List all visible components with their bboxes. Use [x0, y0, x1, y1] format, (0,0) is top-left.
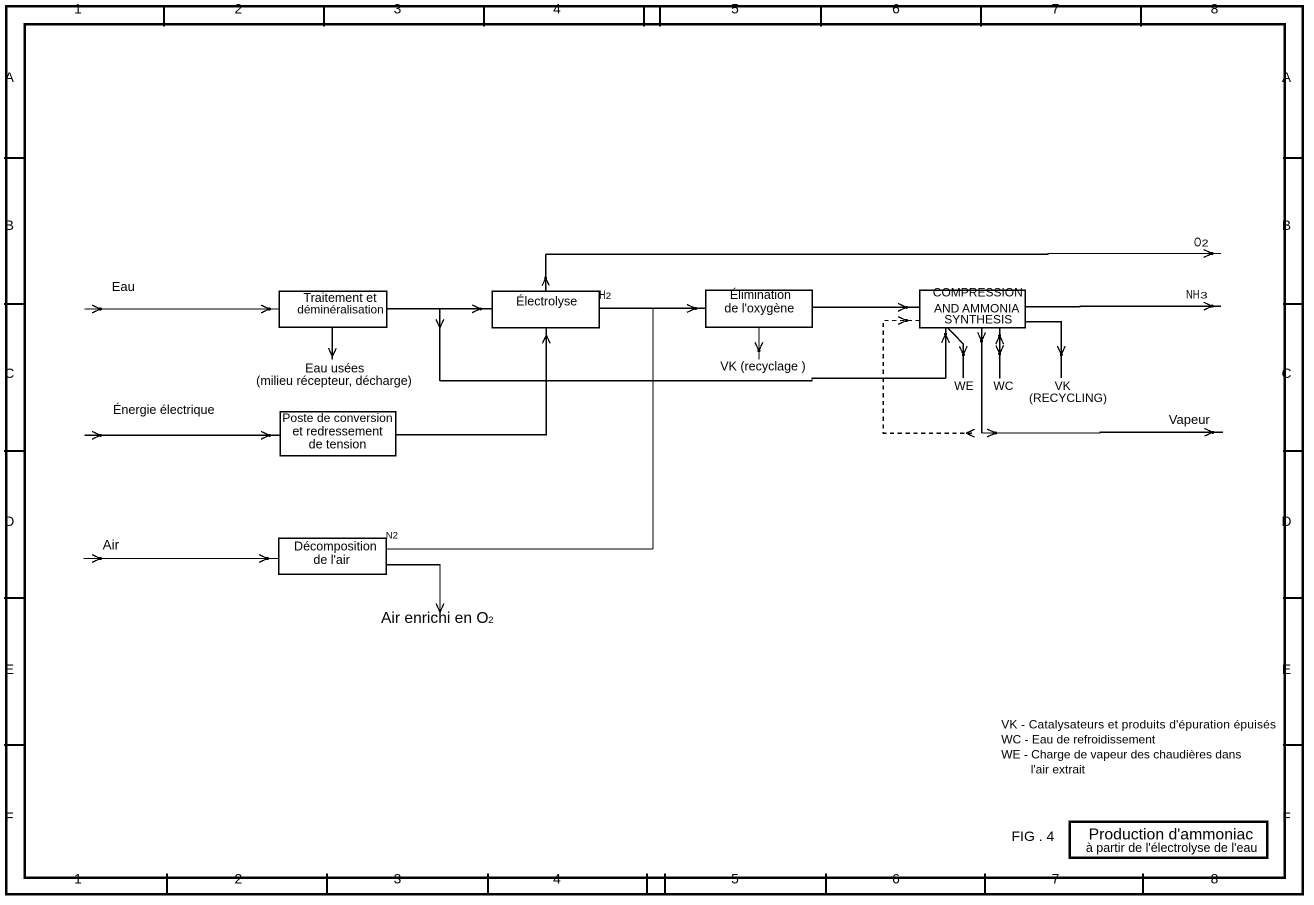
wire: B4 WE outlet diagonal	[948, 328, 964, 379]
svg-text:H: H	[599, 290, 605, 302]
svg-text:7: 7	[1052, 872, 1060, 887]
svg-text:F: F	[5, 810, 13, 825]
svg-text:de l'air: de l'air	[313, 553, 349, 567]
svg-text:WC: WC	[993, 379, 1013, 393]
svg-text:Air enrichi en O: Air enrichi en O	[381, 610, 488, 627]
svg-text:B: B	[5, 218, 14, 233]
wire: B3 drop to VK (recyclage)	[758, 327, 760, 359]
svg-text:Poste de conversion: Poste de conversion	[282, 411, 392, 425]
svg-text:(RECYCLING): (RECYCLING)	[1029, 391, 1107, 405]
svg-text:à partir de l'électrolyse de l: à partir de l'électrolyse de l'eau	[1086, 841, 1258, 855]
svg-text:SYNTHESIS: SYNTHESIS	[944, 312, 1012, 326]
svg-text:6: 6	[892, 872, 900, 887]
svg-text:2: 2	[606, 291, 612, 301]
arrow on Énergie feed (into B5)	[261, 431, 270, 439]
svg-text:8: 8	[1211, 2, 1219, 17]
wire: B1 waste water drop	[331, 327, 333, 359]
arrow down from B3	[755, 342, 763, 351]
svg-text:Décomposition: Décomposition	[294, 539, 377, 553]
arrow O2 output	[1204, 250, 1213, 258]
wire: Eau feed line	[85, 308, 280, 310]
svg-text:A: A	[5, 70, 15, 85]
svg-text:3: 3	[394, 872, 402, 887]
wire: Vapeur output	[982, 431, 1223, 434]
svg-text:(milieu récepteur, décharge): (milieu récepteur, décharge)	[256, 374, 412, 388]
svg-text:WC - Eau de refroidissement: WC - Eau de refroidissement	[1001, 732, 1156, 746]
bottom margin dividers	[167, 874, 1143, 896]
arrow down WE outlet	[959, 346, 967, 355]
svg-text:NH: NH	[1186, 287, 1200, 301]
svg-text:Électrolyse: Électrolyse	[516, 293, 577, 308]
svg-text:COMPRESSION: COMPRESSION	[933, 286, 1023, 300]
svg-text:l'air extrait: l'air extrait	[1031, 763, 1086, 777]
svg-text:4: 4	[553, 2, 561, 17]
svg-text:1: 1	[74, 872, 82, 887]
wire: O2 riser from B2 top	[545, 254, 547, 291]
right margin dividers	[1283, 158, 1304, 745]
label: O2	[1194, 235, 1209, 249]
wire: Air feed	[83, 558, 279, 560]
arrow Vapeur output end	[1204, 428, 1213, 436]
svg-text:4: 4	[553, 872, 561, 887]
grid column numbers (top)	[74, 2, 1219, 17]
arrow down waste water	[329, 348, 337, 357]
wire: B1 to B2	[387, 308, 493, 310]
wire: Énergie électrique feed	[85, 434, 281, 436]
svg-text:D: D	[1282, 514, 1292, 529]
arrow up into B2 bottom	[542, 335, 550, 344]
svg-text:E: E	[1282, 662, 1291, 677]
svg-text:2: 2	[1202, 238, 1209, 249]
svg-text:5: 5	[731, 2, 739, 17]
arrow left at end of dashed loop	[966, 429, 975, 437]
svg-text:déminéralisation: déminéralisation	[297, 303, 384, 317]
svg-text:Eau: Eau	[112, 279, 135, 294]
svg-text:O: O	[1194, 235, 1201, 249]
svg-text:3: 3	[394, 2, 402, 17]
arrow on Eau feed (start)	[92, 305, 101, 313]
svg-text:Énergie électrique: Énergie électrique	[113, 402, 215, 417]
block B2: Électrolyse	[492, 291, 599, 327]
svg-text:D: D	[4, 514, 14, 529]
wire: B3 to B4	[812, 306, 920, 308]
block B3: Élimination de l'oxygène	[706, 287, 813, 328]
wire: NH3 output	[1025, 305, 1221, 308]
svg-text:2: 2	[488, 615, 493, 626]
arrow down WC	[996, 345, 1004, 354]
svg-text:A: A	[1282, 70, 1292, 85]
wire: B4 side outlet to VK recycling	[1025, 322, 1061, 378]
top margin dividers	[164, 5, 1141, 27]
svg-text:2: 2	[234, 872, 242, 887]
arrow right at vapour junction	[987, 429, 996, 437]
arrow up into B4 (WE riser)	[942, 334, 950, 343]
svg-text:F: F	[1282, 810, 1290, 825]
svg-text:de tension: de tension	[309, 438, 367, 452]
arrow down enriched air	[436, 604, 444, 613]
block B4: COMPRESSION AND AMMONIA SYNTHESIS	[920, 286, 1026, 328]
title block box	[1070, 822, 1267, 858]
svg-text:6: 6	[892, 2, 900, 17]
arrow into B4	[898, 303, 907, 311]
left margin dividers	[4, 158, 26, 745]
svg-text:8: 8	[1211, 872, 1219, 887]
wire: WE riser into B4	[945, 328, 947, 379]
svg-text:de l'oxygène: de l'oxygène	[724, 302, 794, 316]
wire: WC line	[999, 328, 1001, 379]
wire: recycle run to WE riser (with jog)	[440, 378, 946, 380]
svg-text:Vapeur: Vapeur	[1169, 412, 1211, 427]
label: Air enrichi en O2	[381, 610, 494, 627]
svg-text:2: 2	[234, 2, 242, 17]
wire: B2 to B3	[599, 307, 705, 309]
arrow on Air feed (into B6)	[259, 555, 268, 563]
wire: recycle branch down at x=440	[439, 309, 441, 381]
wire: O2 output line	[546, 253, 1221, 256]
wire: B4 centre drop to vapour junction	[981, 328, 983, 433]
svg-text:1: 1	[74, 2, 82, 17]
svg-text:5: 5	[731, 872, 739, 887]
arrow on Air feed (start)	[92, 555, 101, 563]
wire: H2/N2 riser at x=653	[652, 308, 654, 549]
wire: B5 output to B2 bottom riser	[396, 328, 547, 435]
svg-text:E: E	[5, 662, 14, 677]
block B1: Traitement et déminéralisation	[279, 291, 387, 327]
arrow into B2	[472, 305, 481, 313]
wire: dashed recycle loop	[883, 321, 975, 434]
svg-text:VK - Catalysateurs et produi: VK - Catalysateurs et produits d'épurati…	[1001, 717, 1276, 731]
arrow down VK recycling	[1057, 346, 1065, 355]
arrow up on O2 riser	[542, 278, 549, 286]
svg-text:FIG . 4: FIG . 4	[1012, 828, 1055, 844]
block B6: Décomposition de l'air	[279, 538, 387, 574]
svg-text:3: 3	[1200, 290, 1207, 301]
arrow on Eau feed (into B1)	[261, 305, 270, 313]
svg-text:B: B	[1282, 218, 1291, 233]
label: H2 at B2 output	[599, 290, 611, 302]
svg-text:7: 7	[1052, 2, 1060, 17]
svg-text:et redressement: et redressement	[292, 424, 383, 438]
arrow NH3 output	[1204, 302, 1213, 310]
svg-text:VK (recyclage ): VK (recyclage )	[720, 359, 805, 373]
svg-text:WE: WE	[954, 379, 973, 393]
svg-text:WE - Charge de vapeur des cha: WE - Charge de vapeur des chaudières dan…	[1001, 748, 1241, 762]
svg-text:Élimination: Élimination	[730, 287, 791, 302]
arrow on Énergie feed (start)	[92, 431, 101, 439]
wire: N2 line from B6	[386, 548, 653, 550]
grid row letters (left)	[4, 70, 14, 825]
wire: B6 enriched-air outlet	[386, 565, 440, 612]
svg-text:Air: Air	[103, 537, 120, 552]
grid row letters (right)	[1282, 70, 1292, 825]
svg-text:N2: N2	[386, 530, 398, 541]
arrow down centre drop	[978, 333, 986, 342]
grid column numbers (bottom)	[74, 872, 1219, 887]
label: NH3	[1186, 287, 1208, 301]
svg-text:C: C	[1282, 366, 1292, 381]
arrow into B3	[687, 305, 696, 313]
svg-text:C: C	[4, 366, 14, 381]
arrow down on recycle branch	[436, 319, 444, 328]
arrow right dashed into B4	[898, 317, 907, 325]
block B5: Poste de conversion et redressement de tension	[280, 411, 396, 456]
arrow up WC	[996, 336, 1004, 345]
